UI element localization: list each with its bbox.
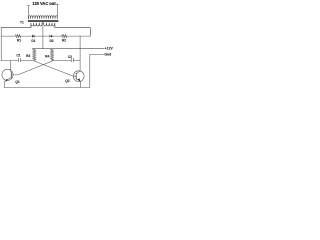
svg-text:D1: D1 [31, 39, 35, 43]
svg-text:T1: T1 [20, 20, 24, 24]
svg-text:Gnd: Gnd [104, 53, 111, 57]
svg-text:R1: R1 [17, 38, 21, 42]
svg-text:Q1: Q1 [15, 80, 19, 84]
svg-text:R2: R2 [62, 39, 66, 43]
svg-text:+12V: +12V [105, 47, 114, 51]
svg-text:120 VAC out: 120 VAC out [32, 1, 56, 6]
svg-text:R4: R4 [45, 55, 49, 59]
svg-text:C2: C2 [68, 55, 72, 59]
svg-text:R3: R3 [26, 54, 30, 58]
svg-text:D2: D2 [49, 39, 53, 43]
svg-text:Q2: Q2 [65, 79, 69, 83]
svg-text:C1: C1 [16, 53, 20, 57]
